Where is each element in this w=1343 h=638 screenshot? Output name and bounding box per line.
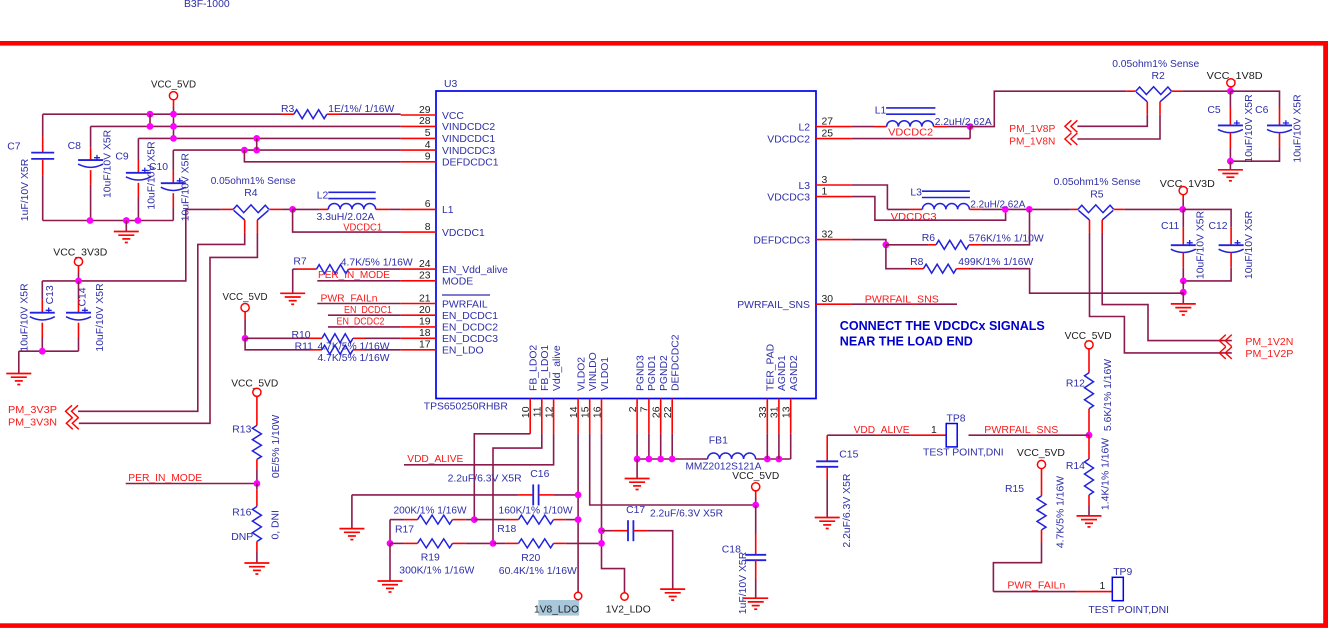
junction VDCDC1 node [289,206,296,213]
wire to pin 9 [244,150,400,162]
pin stub VCC C18 [755,490,757,497]
svg-text:2.2uF/6.3V X5R: 2.2uF/6.3V X5R [650,509,723,520]
svg-text:16: 16 [592,406,603,418]
wire node to C6 [1230,91,1279,107]
svg-text:C5: C5 [1207,105,1221,116]
power symbol VCC_1V3D [1179,187,1187,195]
svg-text:VLDO1: VLDO1 [600,357,611,391]
pin stub R6 left [928,244,936,246]
svg-text:Vdd_alive: Vdd_alive [552,345,563,391]
wire VCC_1V3D [1182,200,1184,209]
svg-text:PM_3V3N: PM_3V3N [8,417,57,428]
pin 27 stub U3 [816,126,851,128]
pin stub R15 bottom [1041,530,1043,543]
pin stub R3 right [327,113,340,115]
junction [669,456,676,463]
pin stub C17 left [613,530,629,532]
pin 6 stub U3 [401,208,436,210]
wire PGND bus to FB1 [637,458,708,460]
inductor L1 [886,108,935,127]
wire pin14 VLDO2 down [577,434,579,593]
wire PWR_FAILn to TP9 [993,591,1076,593]
pin stub C14 bottom [78,323,80,337]
pin stub R15 top [1041,468,1043,496]
wire pin12 Vdd_alive [404,434,554,465]
pin stub C13 top [41,300,43,313]
svg-text:160K/1% 1/10W: 160K/1% 1/10W [499,505,573,516]
pin stub R3 left [281,113,294,115]
svg-text:PM_1V2P: PM_1V2P [1245,349,1293,360]
wire node to R18 [474,519,505,521]
pin stub R5 left [1071,208,1078,210]
svg-text:10uF/10V X5R: 10uF/10V X5R [1293,94,1304,163]
wire pin25 VDCDC2 feedback [851,138,970,140]
junction [883,241,890,248]
wire pin32 to divider [851,240,886,245]
svg-text:VCC: VCC [442,111,464,122]
resistor R6 [936,240,969,249]
pin 13 stub U3 [790,399,792,434]
test point TP9 [1112,577,1123,600]
svg-text:EN_DCDC2: EN_DCDC2 [337,316,385,327]
capacitor C11 [1171,240,1196,252]
pin stub L2 right [376,208,389,210]
svg-text:AGND2: AGND2 [789,355,800,391]
wire TP8 to divider [969,434,1090,436]
svg-text:PGND1: PGND1 [647,355,658,391]
wire C7 bottom [42,175,44,220]
pin stub VCC_5VD [173,99,175,107]
power symbol VCC_5VD [169,92,177,100]
pin 3 stub U3 [816,184,851,186]
pin stub L3 left [910,208,923,210]
svg-text:PM_1V2N: PM_1V2N [1245,337,1293,348]
wire node to C18 [755,505,757,534]
junction [598,527,605,534]
wire to pin 4 [173,149,400,151]
off-page connector PM_1V8N [1065,133,1078,145]
ground R14 [1077,516,1102,527]
wire VDCDC1 feedback to pin 8 [293,209,401,232]
pin 23 stub U3 [401,280,436,282]
junction [147,123,154,130]
pin 22 stub U3 [671,399,673,434]
resistor R8 [923,264,956,273]
svg-text:C17: C17 [626,505,645,516]
wire C14 bottom [78,337,80,351]
svg-text:0.05ohm1% Sense: 0.05ohm1% Sense [1054,177,1141,188]
pin stub C11 top [1182,227,1184,245]
svg-text:L2: L2 [317,190,329,201]
power symbol VCC_5VD R15 [1037,460,1045,468]
svg-text:R14: R14 [1066,461,1085,472]
svg-text:22: 22 [663,406,674,418]
svg-text:TEST POINT,DNI: TEST POINT,DNI [1088,605,1169,616]
ground C11 C12 [1171,304,1196,315]
wire AGND drop x791 [790,434,792,459]
svg-text:10uF/10V X5R: 10uF/10V X5R [1244,210,1255,279]
wire pin27 to L1 [851,126,874,128]
wire L3 to R5 [982,208,1071,210]
svg-text:VDCDC3: VDCDC3 [891,212,937,223]
wire R2 sense to PM_1V8P [1077,115,1147,127]
svg-text:32: 32 [822,229,834,240]
svg-text:VCC_5VD: VCC_5VD [1017,448,1065,459]
pin stub R4 left [221,208,233,210]
pin stub R17 right [453,519,466,521]
capacitor C12 [1219,240,1244,252]
pin 14 stub U3 [577,399,579,434]
svg-text:19: 19 [419,317,431,328]
wire C8 top [90,126,92,147]
svg-text:15: 15 [581,406,592,418]
junction [75,278,82,285]
wire vertical bus link [149,114,151,126]
svg-text:200K/1% 1/16W: 200K/1% 1/16W [394,505,467,516]
wire VCC to R11 [245,338,310,350]
svg-text:300K/1% 1/16W: 300K/1% 1/16W [399,566,474,577]
svg-text:EN_DCDC3: EN_DCDC3 [442,334,498,345]
resistor R14 [1085,459,1094,495]
ground C13 C14 [6,374,31,385]
sense resistor R4 [233,205,269,220]
pin stub C8 top [90,147,92,160]
svg-text:R20: R20 [521,553,540,564]
pin stub R14 bottom [1088,495,1090,506]
wire C9 to pin 5 [138,137,400,139]
pin 26 stub U3 [660,399,662,434]
power symbol VCC_5VD C18 [752,483,760,491]
svg-text:L3: L3 [910,188,922,199]
off-page connector PM_3V3N [66,417,79,429]
svg-text:TER_PAD: TER_PAD [766,344,777,391]
svg-text:8: 8 [425,222,431,233]
pin stub R7 right [349,268,362,270]
svg-text:576K/1% 1/10W: 576K/1% 1/10W [969,233,1044,244]
pin stub C8 bottom [90,170,92,185]
svg-text:9: 9 [425,152,431,163]
pin stub R19 right [453,542,466,544]
pin 29 stub U3 [401,114,436,116]
wire VCC_3V3D to R4 [42,209,186,281]
capacitor C16 [533,484,538,505]
svg-text:C8: C8 [68,141,82,152]
pin stub R5 sense left [1089,220,1091,233]
power symbol VCC_3V3D [74,258,82,266]
inductor L2 [328,192,375,209]
svg-text:VCC_5VD: VCC_5VD [223,292,268,303]
wire R16 to ground [256,552,258,563]
capacitor C15 [816,461,838,467]
wire R17 to node [466,519,475,521]
svg-text:R4: R4 [244,188,258,199]
junction [39,348,46,355]
pin stub R7 left [297,268,317,270]
pin 4 stub U3 [401,149,436,151]
svg-text:0E/5% 1/10W: 0E/5% 1/10W [271,414,282,478]
svg-text:PWR_FAILn: PWR_FAILn [1007,581,1065,592]
junction [254,480,261,487]
wire C12 bottom rail [1183,268,1231,281]
wire to R19 [390,542,404,544]
svg-text:VCC_3V3D: VCC_3V3D [53,248,107,259]
off-page connector PM_1V8P [1065,120,1078,132]
ground C15 [815,518,840,529]
power symbol VCC_5VD R10 [241,304,249,312]
svg-text:C10: C10 [149,162,168,173]
pin 25 stub U3 [816,138,851,140]
ground R17 R19 [378,581,403,592]
svg-text:3: 3 [822,175,828,186]
svg-text:23: 23 [419,271,431,282]
pin 15 stub U3 [589,399,591,434]
capacitor C5 [1218,120,1243,132]
pin stub C9 top [137,160,139,173]
wire pin3 to L3 [851,185,887,209]
pin 18 stub U3 [401,337,436,339]
pin stub R8 left [910,268,923,270]
pin stub VCC_1V3D [1182,194,1184,200]
junction [752,502,759,509]
pin 21 stub U3 [401,303,436,305]
svg-text:R19: R19 [421,552,440,563]
svg-text:L1: L1 [442,205,454,216]
wire PGND drop x637 [636,434,638,459]
pin stub C12 bottom [1230,252,1232,267]
pin 11 stub U3 [541,399,543,434]
inductor L3 [922,191,970,209]
ground C17 [660,589,685,600]
svg-text:2.2uF/6.3V X5R: 2.2uF/6.3V X5R [448,473,522,484]
svg-text:4.7K/5% 1/16W: 4.7K/5% 1/16W [1055,476,1066,548]
svg-text:R2: R2 [1152,71,1166,82]
wire capacitor ground rail [43,220,174,222]
pin stub R8 right [956,268,969,270]
ground C5 C6 [1218,170,1243,181]
pin stub R14 top [1088,435,1090,459]
junction [575,492,582,499]
svg-text:VCC_5VD: VCC_5VD [732,471,779,482]
wire R6 to VDCDC3 node [982,209,1030,244]
wire PWRFAIL_SNS stub [851,303,957,305]
pin stub R19 left [404,542,417,544]
svg-text:1: 1 [1100,581,1106,592]
svg-text:VCC_5VD: VCC_5VD [151,80,196,91]
junction [1227,158,1234,165]
svg-text:VLDO2: VLDO2 [576,357,587,391]
wire rail to ground [125,221,127,232]
pin stub L1 left [874,126,887,128]
ferrite bead FB1 [708,453,756,459]
wire to R17 [390,519,404,521]
wire VCC bus to R3 [43,113,281,115]
power symbol VCC_1V8D [1227,79,1235,87]
svg-text:PGND2: PGND2 [659,355,670,391]
wire R19 to node [466,542,493,544]
pin stub C10 bottom [172,193,174,207]
svg-text:EN_LDO: EN_LDO [442,346,484,357]
svg-text:C15: C15 [839,450,858,461]
op-amp U3 TPS650250RHBR body [436,91,816,399]
svg-text:60.4K/1% 1/16W: 60.4K/1% 1/16W [499,566,577,577]
wire EN_DCDC2 to pin 19 [328,326,401,328]
svg-text:VINDCDC3: VINDCDC3 [442,146,495,157]
svg-text:VDCDC2: VDCDC2 [767,134,810,145]
wire C10 top [172,150,174,170]
svg-text:TP8: TP8 [947,413,966,424]
wire EN_DCDC1 to pin 20 [328,314,401,316]
pin stub VCC R10 [244,311,246,320]
wire R5 to VCC_1V3D node [1125,208,1183,210]
wire pin10 FB_LDO2 to divider [474,434,530,520]
wire node to L2 [293,208,320,210]
svg-text:1E/1%/ 1/16W: 1E/1%/ 1/16W [328,104,394,115]
svg-text:0, DNI: 0, DNI [270,510,281,539]
pin 7 stub U3 [648,399,650,434]
pin stub R18 right [554,519,566,521]
wire node to feedback [969,127,971,139]
svg-text:VDCDC3: VDCDC3 [767,192,810,203]
junction [967,123,974,130]
svg-text:FB1: FB1 [709,435,728,446]
wire R5 sense to PM_1V2N [1102,233,1232,341]
pin stub C17 right [633,530,648,532]
pin stub C7 bottom [42,159,44,175]
svg-text:10uF/10V X5R: 10uF/10V X5R [147,141,158,210]
svg-text:VDCDC1: VDCDC1 [343,223,382,234]
svg-text:33: 33 [758,406,769,418]
svg-text:FB_LDO2: FB_LDO2 [529,345,540,391]
capacitor C10 [161,178,186,190]
svg-text:24: 24 [419,259,431,270]
svg-text:CONNECT THE VDCDCx SIGNALS: CONNECT THE VDCDCx SIGNALS [840,318,1045,333]
pin 31 stub U3 [778,399,780,434]
svg-text:VDD_ALIVE: VDD_ALIVE [854,425,910,436]
svg-text:14: 14 [569,406,580,418]
svg-text:1uF/10V X5R: 1uF/10V X5R [738,551,749,614]
port 1V2_LDO circle [621,593,628,600]
capacitor C7 [31,153,54,159]
junction [170,135,177,142]
pin stub C5 top [1229,108,1231,126]
wire divider to ground [389,543,391,581]
wire node to R16 [256,484,258,490]
svg-text:R16: R16 [232,507,251,518]
pin 28 stub U3 [401,125,436,127]
svg-text:30: 30 [822,294,834,305]
svg-text:DNP: DNP [231,532,253,543]
wire to ground C11 [1182,292,1184,304]
junction [170,123,177,130]
wire R4 sense to PM_3V3N [79,233,258,423]
power symbol VCC_5VD R12 [1085,341,1093,349]
pin 16 stub U3 [601,399,603,434]
pin stub R18 left [505,519,518,521]
pin stub R20 left [505,542,518,544]
ground rail [114,232,139,243]
svg-text:10uF/10V X5R: 10uF/10V X5R [1196,210,1207,279]
svg-text:L1: L1 [875,106,887,117]
pin stub R2 left [1126,90,1136,92]
pin stub R5 sense right [1101,220,1103,233]
ground R7 [280,293,305,304]
pin stub R11 right [353,349,365,351]
wire PER_IN_MODE [126,483,257,485]
pin stub R17 left [404,519,417,521]
svg-text:MODE: MODE [442,277,473,288]
svg-text:6: 6 [425,199,431,210]
svg-text:18: 18 [419,328,431,339]
wire C8 bottom [90,185,92,221]
pin stub R13 bottom [256,459,258,470]
pin stub R13 top [256,396,258,426]
ground PGND [625,479,650,490]
svg-text:VINDCDC1: VINDCDC1 [442,134,495,145]
wire R10 to pin 18 [365,337,401,339]
off-page connector PM_1V2N [1219,335,1232,347]
svg-text:R10: R10 [292,330,311,341]
svg-text:28: 28 [419,116,431,127]
svg-text:PER_IN_MODE: PER_IN_MODE [318,270,390,281]
svg-text:R17: R17 [395,525,414,536]
junction [1180,278,1187,285]
junction [253,135,260,142]
resistor R12 [1085,373,1094,409]
wire C11 bottom [1182,268,1184,281]
wire VCC to R10 [244,320,246,338]
pin stub R2 sense right [1159,102,1161,115]
highlight box 1V8_LDO [538,600,579,616]
ground R16 [244,563,269,574]
sense resistor R5 [1078,205,1114,220]
pin 17 stub U3 [401,349,436,351]
wire PWR_FAILn to pin 21 [317,303,400,305]
svg-text:TPS650250RHBR: TPS650250RHBR [424,401,508,412]
svg-text:31: 31 [770,406,781,418]
svg-text:VINDCDC2: VINDCDC2 [442,122,495,133]
pin stub C6 bottom [1279,133,1281,148]
resistor R10 [322,334,353,343]
svg-text:4.7K/5% 1/16W: 4.7K/5% 1/16W [318,342,390,353]
wire R4 to node [283,208,293,210]
svg-text:10: 10 [521,406,532,418]
resistor R13 [252,425,261,459]
pin 24 stub U3 [401,268,436,270]
junction [1026,206,1033,213]
svg-text:3.3uH/2.02A: 3.3uH/2.02A [317,212,375,223]
pin 9 stub U3 [401,161,436,163]
wire to R6 [886,244,928,246]
svg-text:R7: R7 [293,257,307,268]
pin stub C18 top [755,534,757,555]
svg-text:499K/1% 1/16W: 499K/1% 1/16W [958,257,1033,268]
svg-text:10uF/10V X5R: 10uF/10V X5R [20,283,31,352]
pin stub C18 bottom [755,560,757,579]
pin stub C14 top [78,300,80,313]
sense resistor R2 [1136,87,1172,102]
pin stub C13 bottom [41,323,43,337]
wire VDD_ALIVE to TP8 [827,434,910,436]
svg-text:0.05ohm1% Sense: 0.05ohm1% Sense [1112,59,1199,70]
svg-text:17: 17 [419,340,431,351]
svg-text:PWRFAIL: PWRFAIL [442,299,488,310]
wire R4 sense to PM_3V3P [78,233,245,411]
resistor R11 [322,345,353,354]
wire to C17 [602,530,613,532]
wire C17 to ground [648,531,673,589]
wire C13 bottom [41,337,43,351]
pin stub C9 bottom [137,183,139,197]
